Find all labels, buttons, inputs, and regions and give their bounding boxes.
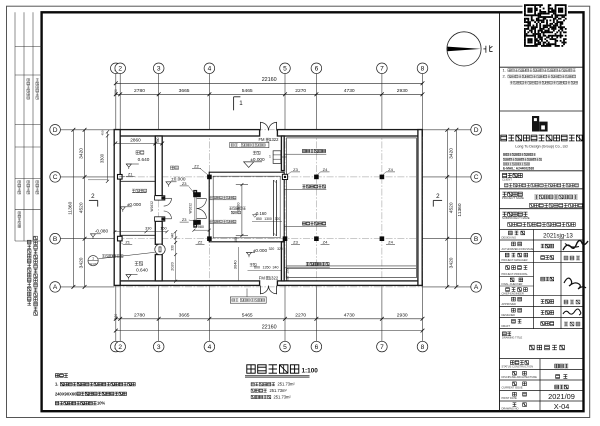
svg-text:1300: 1300 bbox=[264, 217, 272, 221]
svg-text:SUBPROJECT NAME: SUBPROJECT NAME bbox=[502, 216, 530, 220]
svg-text:440: 440 bbox=[170, 233, 174, 239]
svg-text:22160: 22160 bbox=[262, 324, 277, 330]
svg-text:DESIGNED: DESIGNED bbox=[502, 313, 516, 317]
svg-text:4: 4 bbox=[208, 344, 212, 351]
svg-text:Z2: Z2 bbox=[198, 239, 203, 244]
svg-text:C: C bbox=[53, 174, 58, 181]
svg-text:1350: 1350 bbox=[263, 266, 271, 270]
svg-text:C: C bbox=[474, 174, 479, 181]
svg-text:Z4: Z4 bbox=[323, 240, 328, 245]
svg-text:4520: 4520 bbox=[79, 202, 85, 213]
svg-text:2020: 2020 bbox=[170, 262, 174, 270]
svg-text:600: 600 bbox=[254, 266, 260, 270]
svg-text:D: D bbox=[474, 127, 479, 134]
svg-text:8: 8 bbox=[421, 344, 425, 351]
svg-text:7: 7 bbox=[380, 66, 384, 73]
svg-text:±0.000: ±0.000 bbox=[253, 248, 268, 253]
svg-text:8: 8 bbox=[421, 66, 425, 73]
svg-text:DESIGN NO: DESIGN NO bbox=[502, 236, 517, 240]
svg-text:PRINT DATE: PRINT DATE bbox=[502, 396, 517, 400]
svg-text:2021sjg-13: 2021sjg-13 bbox=[543, 233, 573, 239]
svg-text:FINAL-CHECKER: FINAL-CHECKER bbox=[502, 282, 523, 286]
svg-text:980: 980 bbox=[198, 225, 204, 229]
svg-text:FM: FM bbox=[259, 275, 266, 280]
svg-text:X-04: X-04 bbox=[554, 402, 570, 411]
svg-text:0.640: 0.640 bbox=[136, 268, 148, 273]
svg-text:1: 1 bbox=[269, 155, 271, 159]
svg-text:2: 2 bbox=[118, 344, 122, 351]
svg-text:±0.000: ±0.000 bbox=[250, 157, 265, 162]
svg-text:3420: 3420 bbox=[448, 148, 454, 159]
svg-text:320: 320 bbox=[114, 314, 118, 320]
svg-text:Z3: Z3 bbox=[182, 217, 187, 222]
svg-text:150: 150 bbox=[160, 227, 166, 231]
svg-text:330: 330 bbox=[170, 245, 174, 251]
svg-text:2860: 2860 bbox=[130, 137, 141, 142]
svg-text:340: 340 bbox=[273, 266, 279, 270]
svg-text:Z1: Z1 bbox=[125, 239, 130, 244]
svg-text:320: 320 bbox=[275, 217, 281, 221]
svg-text:2: 2 bbox=[91, 193, 95, 200]
svg-text:Z4: Z4 bbox=[388, 240, 393, 245]
svg-text:5465: 5465 bbox=[242, 313, 253, 319]
svg-text:DRAFT: DRAFT bbox=[502, 324, 511, 328]
svg-text:D: D bbox=[53, 127, 58, 134]
svg-text:11360: 11360 bbox=[67, 201, 73, 215]
svg-text:330: 330 bbox=[145, 227, 151, 231]
svg-text:2780: 2780 bbox=[134, 313, 145, 319]
svg-text:1: 1 bbox=[239, 100, 243, 107]
svg-text:2021/09: 2021/09 bbox=[548, 392, 575, 401]
svg-text:3: 3 bbox=[157, 344, 161, 351]
svg-text:PROJECT-MANAGER: PROJECT-MANAGER bbox=[502, 258, 528, 262]
svg-text:480: 480 bbox=[156, 137, 160, 143]
svg-text:-0.080: -0.080 bbox=[95, 229, 109, 234]
svg-text:4520: 4520 bbox=[448, 202, 454, 213]
svg-text:2930: 2930 bbox=[397, 88, 408, 94]
svg-text:22160: 22160 bbox=[262, 77, 277, 83]
svg-text:4730: 4730 bbox=[344, 313, 355, 319]
svg-text:Long Tu Design (Group) Co., Lt: Long Tu Design (Group) Co., Ltd bbox=[515, 144, 567, 148]
svg-text:3420: 3420 bbox=[79, 257, 85, 268]
svg-text:320: 320 bbox=[277, 247, 283, 251]
svg-text:4730: 4730 bbox=[344, 88, 355, 94]
svg-text:E-MAIL: A244062638: E-MAIL: A244062638 bbox=[503, 166, 534, 170]
svg-text:3900: 3900 bbox=[236, 202, 241, 212]
svg-text:DRAWING NO: DRAWING NO bbox=[502, 406, 519, 410]
svg-text:5: 5 bbox=[283, 66, 287, 73]
svg-text:Z1: Z1 bbox=[128, 171, 133, 176]
svg-text:11360: 11360 bbox=[457, 203, 463, 217]
svg-text:2.: 2. bbox=[503, 74, 506, 79]
svg-text:Z3: Z3 bbox=[293, 239, 298, 244]
svg-text:3: 3 bbox=[157, 66, 161, 73]
svg-text:PROJECT NAME: PROJECT NAME bbox=[502, 196, 524, 200]
svg-text:7: 7 bbox=[380, 344, 384, 351]
svg-text:2: 2 bbox=[118, 66, 122, 73]
svg-text:3040: 3040 bbox=[232, 260, 237, 270]
svg-text:850: 850 bbox=[256, 217, 262, 221]
svg-text:DRAWING TITLE: DRAWING TITLE bbox=[502, 336, 522, 340]
svg-text:251.73m²: 251.73m² bbox=[278, 382, 296, 387]
svg-text:5: 5 bbox=[283, 344, 287, 351]
svg-text:CLIENT: CLIENT bbox=[502, 178, 512, 182]
svg-text:FM: FM bbox=[258, 137, 265, 142]
svg-text:320: 320 bbox=[114, 89, 118, 95]
svg-text:A: A bbox=[53, 284, 58, 291]
svg-text:180: 180 bbox=[286, 276, 290, 282]
svg-text:W1632: W1632 bbox=[150, 201, 154, 212]
svg-text:3665: 3665 bbox=[179, 313, 190, 319]
svg-text:PROJECT-PRINCIPAL: PROJECT-PRINCIPAL bbox=[502, 272, 529, 276]
svg-text:251.73m²: 251.73m² bbox=[274, 395, 292, 400]
svg-text:,: , bbox=[240, 143, 241, 147]
svg-text:1.: 1. bbox=[55, 382, 58, 387]
svg-text:Z2: Z2 bbox=[194, 163, 199, 168]
svg-text:4: 4 bbox=[208, 66, 212, 73]
svg-text:Z4: Z4 bbox=[388, 167, 393, 172]
svg-text:AUTHORIZED-FOR-ISSUE: AUTHORIZED-FOR-ISSUE bbox=[502, 247, 534, 251]
svg-text:APPROVED: APPROVED bbox=[502, 302, 517, 306]
svg-text:3665: 3665 bbox=[179, 88, 190, 94]
svg-text:6: 6 bbox=[315, 344, 319, 351]
svg-text:251.73m²: 251.73m² bbox=[270, 388, 288, 393]
svg-text:W1632: W1632 bbox=[189, 203, 193, 214]
svg-text:B: B bbox=[474, 236, 479, 243]
svg-text:CHIEF-ENGINEER: CHIEF-ENGINEER bbox=[502, 291, 524, 295]
svg-text:6: 6 bbox=[315, 66, 319, 73]
svg-text:Z3: Z3 bbox=[293, 167, 298, 172]
svg-text:2930: 2930 bbox=[397, 313, 408, 319]
svg-text:Z4: Z4 bbox=[323, 167, 328, 172]
svg-text:100: 100 bbox=[286, 268, 290, 274]
svg-text:450: 450 bbox=[101, 130, 105, 135]
svg-text:1:100: 1:100 bbox=[302, 368, 319, 375]
svg-text:B: B bbox=[53, 236, 58, 243]
svg-text:1322: 1322 bbox=[269, 275, 279, 280]
svg-text:2: 2 bbox=[436, 193, 440, 200]
svg-text:CURRENT ISSUE: CURRENT ISSUE bbox=[502, 386, 523, 390]
svg-text:1.: 1. bbox=[503, 68, 506, 73]
svg-text:2270: 2270 bbox=[295, 313, 306, 319]
svg-text:±0.000: ±0.000 bbox=[127, 202, 142, 207]
svg-text:2780: 2780 bbox=[134, 88, 145, 94]
svg-text:180: 180 bbox=[234, 237, 238, 243]
svg-text:10%: 10% bbox=[97, 401, 106, 406]
svg-text:W-09: W-09 bbox=[90, 262, 97, 266]
svg-text:STATUS CONSTRUCTION: STATUS CONSTRUCTION bbox=[502, 365, 534, 369]
svg-text:DISCIPLINE ARCHITECTURE: DISCIPLINE ARCHITECTURE bbox=[502, 375, 538, 379]
svg-text:3420: 3420 bbox=[79, 148, 85, 159]
svg-text:240X90X60: 240X90X60 bbox=[55, 391, 77, 396]
svg-text:5465: 5465 bbox=[242, 88, 253, 94]
svg-text:2270: 2270 bbox=[295, 88, 306, 94]
svg-text:1322: 1322 bbox=[269, 137, 279, 142]
svg-text:320: 320 bbox=[269, 247, 275, 251]
svg-text:1: 1 bbox=[92, 257, 94, 261]
svg-text:±0.000: ±0.000 bbox=[171, 177, 186, 182]
svg-text:3420: 3420 bbox=[448, 257, 454, 268]
svg-text:0.640: 0.640 bbox=[138, 157, 150, 162]
svg-text:A: A bbox=[474, 284, 479, 291]
svg-text:3300: 3300 bbox=[100, 153, 105, 163]
